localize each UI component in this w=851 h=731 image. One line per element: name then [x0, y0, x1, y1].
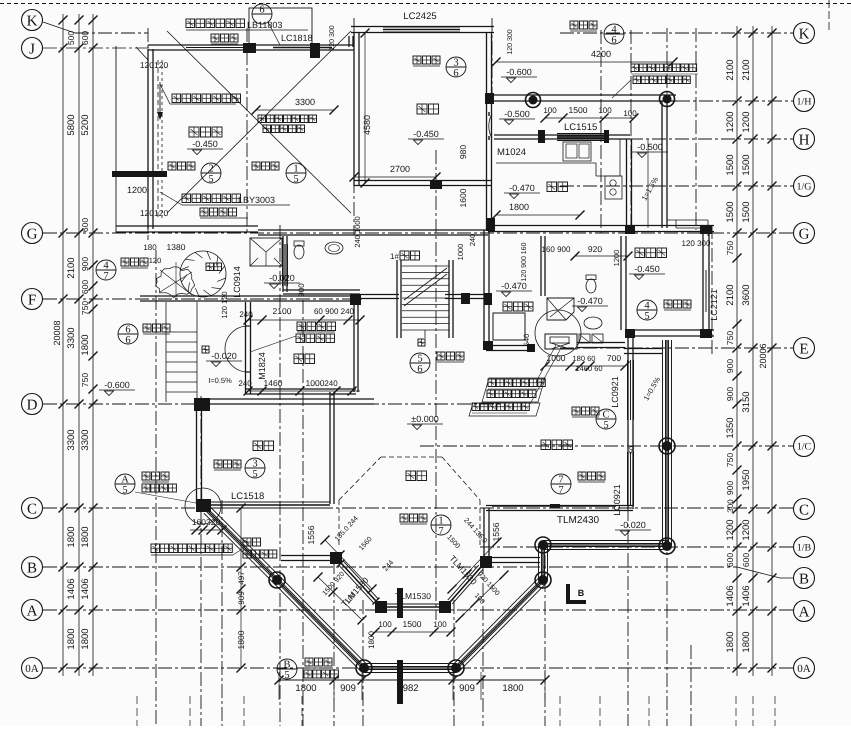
wall guest north: [199, 403, 374, 405]
axis bubble B right: [794, 568, 815, 589]
bay dim line outer right: [460, 575, 504, 618]
window LC0914 band: [287, 244, 289, 286]
axis line C: [43, 507, 793, 509]
svg-text:-0.470: -0.470: [509, 183, 535, 193]
svg-text:3: 3: [453, 58, 458, 69]
side yard east line: [647, 139, 649, 228]
round column bay 7: [659, 438, 675, 454]
svg-text:900: 900: [725, 359, 735, 373]
svg-text:900: 900: [725, 387, 735, 401]
wall dining east: [486, 33, 488, 230]
wc basin: [325, 242, 343, 254]
wall stair landing south: [360, 298, 399, 300]
room label 厨房: [547, 182, 568, 192]
round column bay 3: [448, 660, 464, 676]
svg-text:5: 5: [417, 354, 422, 365]
window LC2425: [383, 26, 460, 28]
wall guest west: [196, 404, 198, 504]
svg-text:LBY3003: LBY3003: [238, 195, 275, 205]
column worker ne: [700, 225, 712, 234]
svg-text:900: 900: [725, 481, 735, 495]
detail circle B/5: [277, 659, 297, 681]
svg-text:1000: 1000: [456, 244, 465, 261]
axis bubble 0A left: [22, 658, 43, 679]
wall laundry divider: [540, 236, 542, 296]
svg-text:1800: 1800: [80, 526, 91, 547]
svg-text:1406: 1406: [80, 578, 91, 599]
ann 详建施 3/6: [413, 56, 440, 64]
dim line bay bottom: [375, 631, 451, 633]
svg-text:3300: 3300: [80, 429, 91, 450]
corner circle big: [185, 488, 221, 524]
svg-text:1460 60: 1460 60: [575, 364, 602, 373]
bay pier tick cluster right: [447, 599, 454, 606]
svg-text:K: K: [27, 13, 38, 29]
axis line 1/H: [492, 100, 793, 102]
wall garage south: [116, 231, 258, 233]
svg-text:5: 5: [293, 174, 298, 185]
stair break line: [404, 268, 447, 300]
garage door arrow: [159, 82, 161, 118]
wall dining north: [351, 32, 494, 34]
wall deck north: [494, 100, 676, 102]
svg-text:1200: 1200: [612, 250, 621, 267]
svg-text:3150: 3150: [741, 391, 752, 412]
svg-text:920: 920: [588, 244, 602, 254]
axis bubble C right: [794, 499, 815, 520]
svg-text:1800: 1800: [502, 683, 523, 694]
section bar B bottom: [397, 588, 403, 618]
svg-text:4: 4: [103, 261, 109, 272]
svg-text:600: 600: [80, 280, 90, 294]
svg-text:1556: 1556: [306, 525, 316, 544]
detail circle A/5: [115, 474, 135, 496]
bay dim line inner right: [452, 542, 497, 589]
wall worker east: [702, 232, 704, 336]
svg-text:600: 600: [80, 218, 90, 232]
round column bay 2: [356, 660, 372, 676]
svg-text:3300: 3300: [66, 429, 77, 450]
axis line E: [560, 347, 793, 349]
column hall north right: [527, 344, 535, 352]
svg-text:LB11803: LB11803: [247, 20, 282, 30]
svg-text:0A: 0A: [25, 663, 39, 675]
svg-text:1#: 1#: [390, 252, 399, 261]
axis bubble 1/H right: [794, 91, 815, 112]
column stairs east: [461, 293, 470, 304]
bay dim line outer left: [318, 577, 362, 620]
axis bubble K left: [22, 10, 43, 31]
axis line J: [43, 47, 150, 49]
wc toilet: [294, 245, 304, 259]
wall x486 vertical: [483, 230, 485, 348]
ann wall hole line1: [631, 64, 697, 72]
bay wall top-left: [281, 560, 331, 562]
svg-text:1800: 1800: [725, 631, 736, 652]
shower stall: [547, 298, 574, 320]
svg-text:-0.600: -0.600: [506, 67, 532, 77]
axis line G: [43, 232, 793, 234]
grid line centre x436: [435, 150, 437, 620]
svg-text:2100: 2100: [66, 257, 77, 278]
svg-text:3: 3: [252, 459, 257, 470]
axis bubble G right: [794, 223, 815, 244]
fireplace note line3: [472, 403, 529, 411]
sheet border top (dotted): [0, 3, 851, 5]
label ann LB11803: [186, 19, 245, 28]
svg-text:6: 6: [453, 68, 458, 79]
window LC2121: [708, 270, 710, 312]
fireplace note line1: [488, 379, 545, 387]
axis bubble K stub: [43, 22, 75, 33]
fireplace leaders: [536, 345, 556, 382]
window LC1518: [211, 501, 330, 503]
svg-text:-0.450: -0.450: [634, 264, 660, 274]
svg-text:120120: 120120: [140, 208, 169, 218]
svg-text:1800: 1800: [80, 628, 91, 649]
wall kitchen east: [626, 139, 628, 232]
grid line x696: [695, 28, 697, 230]
round column bay 5: [535, 537, 551, 553]
column garage north mid: [243, 43, 256, 53]
ticks 160320: [190, 529, 222, 531]
round column bay 4: [535, 572, 551, 588]
axis line B: [43, 566, 737, 568]
ann UPVC: [151, 544, 232, 553]
svg-text:-0.470: -0.470: [577, 296, 603, 306]
detail circle 7/7: [551, 474, 571, 496]
svg-text:7: 7: [558, 475, 563, 486]
svg-text:50: 50: [629, 446, 636, 454]
svg-text:I=0.5%: I=0.5%: [208, 376, 232, 385]
svg-text:A: A: [27, 603, 38, 619]
wall family north east piece: [624, 353, 662, 355]
svg-text:1800: 1800: [741, 631, 752, 652]
svg-text:1200: 1200: [741, 111, 752, 132]
svg-text:600: 600: [725, 553, 735, 567]
axis line 1/G: [560, 185, 793, 187]
svg-text:1500: 1500: [741, 154, 752, 175]
svg-text:C: C: [27, 501, 37, 517]
svg-text:1380: 1380: [167, 242, 186, 252]
svg-text:540: 540: [522, 334, 531, 347]
svg-text:909: 909: [237, 591, 246, 605]
ann (余同) B/5: [304, 670, 338, 678]
svg-text:C: C: [799, 502, 809, 518]
ann 详建施 4/7: [121, 258, 148, 266]
svg-text:750: 750: [725, 453, 735, 467]
wall entry south: [245, 393, 356, 395]
svg-text:6: 6: [611, 35, 616, 46]
axis bubble E right: [794, 338, 815, 359]
ann 详建施 4/6: [570, 21, 597, 29]
axis line 1/C: [420, 445, 793, 447]
fireplace note box12: [482, 378, 545, 402]
ann (余同) A/5: [142, 484, 176, 492]
svg-text:900: 900: [297, 283, 306, 297]
column garage north east: [310, 43, 320, 58]
axis bubble 1/G right: [794, 176, 815, 197]
svg-text:1500: 1500: [725, 154, 736, 175]
grid line x483: [482, 560, 484, 726]
bay dashed ceiling: [339, 457, 381, 500]
column x485: [484, 293, 492, 305]
bay window TLM1530 left: [343, 561, 378, 599]
bottom extension verticals: [136, 696, 138, 726]
grid line x280: [279, 225, 281, 726]
room label 起居室: [541, 440, 573, 450]
terrace band left low: [280, 577, 367, 665]
canopy rect above: [249, 8, 312, 45]
svg-text:120 300: 120 300: [507, 29, 514, 54]
svg-text:2100: 2100: [725, 284, 736, 305]
svg-text:2100: 2100: [741, 59, 752, 80]
wall stairhall north G: [360, 234, 488, 236]
svg-text:100: 100: [543, 106, 557, 115]
kitchen counter edge: [496, 162, 596, 164]
grid line x628: [627, 392, 629, 726]
svg-text:120120: 120120: [140, 60, 169, 70]
right dim chain lines: [736, 26, 738, 676]
cross brace X garage bay: [167, 31, 351, 213]
svg-text:100: 100: [433, 620, 447, 629]
wall worker south: [628, 335, 714, 337]
door M1024 arc: [489, 114, 492, 138]
svg-text:1200: 1200: [127, 185, 147, 195]
wall deck east: [661, 101, 663, 228]
svg-text:3300: 3300: [295, 97, 315, 107]
svg-text:300: 300: [726, 499, 735, 513]
fireplace detail circle: [535, 310, 581, 356]
svg-text:LC2121: LC2121: [709, 289, 719, 321]
svg-text:1800: 1800: [509, 202, 529, 212]
svg-text:100: 100: [598, 106, 612, 115]
corner column C: [196, 499, 211, 512]
mezzanine note line2: [263, 125, 305, 133]
svg-text:7: 7: [558, 485, 563, 496]
svg-text:6: 6: [125, 325, 130, 336]
bay dim inner left ticks: [321, 536, 330, 545]
axis line F: [43, 298, 365, 300]
axis bubble F left: [22, 289, 43, 310]
wall bath south: [577, 347, 625, 349]
svg-text:909: 909: [459, 683, 475, 694]
svg-text:1/B: 1/B: [797, 543, 812, 554]
tree circle: [180, 251, 226, 297]
svg-text:-0.020: -0.020: [269, 273, 295, 283]
svg-text:4200: 4200: [591, 49, 611, 59]
svg-text:180 60: 180 60: [573, 354, 596, 363]
svg-text:20008: 20008: [52, 320, 62, 345]
svg-text:1500: 1500: [403, 619, 422, 629]
svg-text:1200: 1200: [725, 111, 736, 132]
svg-text:F: F: [28, 292, 36, 308]
stair down label: [202, 346, 209, 353]
svg-text:5: 5: [122, 485, 127, 496]
svg-text:240: 240: [468, 234, 477, 247]
grid line x454: [453, 600, 455, 726]
garage corner break tick: [136, 47, 148, 60]
door M1824 arc: [225, 326, 248, 372]
ann 详建施 A/5: [142, 472, 169, 480]
wall family east: [627, 336, 629, 509]
window LC1515: [557, 133, 606, 135]
bay pier se: [439, 601, 451, 613]
stair walls: [396, 260, 398, 338]
detail circle 4/7: [96, 260, 116, 282]
bay dim line inner left: [325, 540, 372, 589]
svg-text:900: 900: [80, 257, 90, 271]
wall worker north: [632, 231, 714, 233]
bottom dim ext lines: [278, 672, 280, 700]
svg-text:909: 909: [340, 683, 356, 694]
ann 详建施1处: [200, 208, 237, 216]
column worker nw: [625, 225, 635, 234]
axis line H: [560, 138, 793, 140]
washer boxes: [579, 334, 590, 343]
svg-text:100: 100: [378, 620, 392, 629]
svg-text:-0.020: -0.020: [211, 351, 237, 361]
wall step dining-garage: [348, 36, 350, 47]
bay pier sw: [375, 601, 387, 613]
svg-text:2100: 2100: [273, 306, 292, 316]
stair up arrow: [424, 330, 426, 338]
terrace band bottom: [364, 663, 456, 665]
svg-text:240: 240: [238, 379, 252, 388]
axis line A: [43, 609, 793, 611]
svg-text:LC0921: LC0921: [610, 376, 620, 408]
svg-text:4: 4: [611, 25, 617, 36]
svg-text:1: 1: [438, 516, 443, 527]
svg-text:2700: 2700: [390, 164, 410, 174]
svg-text:6: 6: [259, 5, 264, 16]
column guest nw: [194, 398, 210, 411]
wall mid horizontal G: [258, 234, 360, 236]
grid line x691: [690, 645, 692, 726]
ann 详建施 6/6: [143, 324, 170, 332]
ann 详建施 4/5: [664, 300, 691, 308]
svg-text:3600: 3600: [741, 284, 752, 305]
svg-text:-0.020: -0.020: [620, 520, 646, 530]
grid line x667 upper: [666, 28, 668, 95]
room label 客厅: [406, 471, 427, 481]
kitchen sink: [563, 142, 591, 161]
svg-text:1500: 1500: [569, 105, 588, 115]
room label 工人房: [635, 248, 667, 258]
svg-text:H: H: [799, 132, 810, 148]
svg-text:5: 5: [603, 420, 608, 431]
axis bubble 1/C right: [794, 436, 815, 457]
svg-text:120 900 160: 120 900 160: [521, 242, 528, 281]
grid line x363: [362, 600, 364, 726]
room label 餐厅: [417, 104, 439, 114]
fireplace note box3: [469, 403, 540, 416]
svg-text:1406: 1406: [66, 578, 77, 599]
left dim chain lines: [62, 14, 64, 676]
detail circle 3/6: [446, 57, 466, 79]
wall family south TLM2430: [486, 510, 633, 512]
grid line x667 lower: [666, 420, 668, 726]
wall kitchen north LC1515: [494, 138, 630, 140]
svg-text:±0.000: ±0.000: [411, 414, 438, 424]
wall dining south: [354, 185, 492, 187]
detail circle 2/5: [201, 163, 221, 185]
svg-text:1000: 1000: [306, 378, 325, 388]
svg-text:6: 6: [417, 364, 422, 375]
wall hall north left: [486, 350, 532, 352]
window TLM2430 marks: [492, 505, 616, 507]
column worker sw: [625, 329, 635, 338]
grid line x601: [600, 30, 602, 233]
ann rain line1: [243, 538, 261, 546]
round column deck west: [526, 93, 541, 108]
detail circle 1/7: [431, 515, 451, 537]
svg-text:7: 7: [438, 526, 443, 537]
svg-text:K: K: [799, 26, 810, 42]
bay pier tick cluster left: [338, 560, 345, 567]
window LB11803 louver: [186, 44, 243, 46]
svg-text:1500: 1500: [725, 201, 736, 222]
svg-text:-0.500: -0.500: [637, 142, 663, 152]
wall wc west: [282, 236, 284, 292]
bay pier nw: [330, 552, 342, 564]
ann 详建施 1/7: [400, 514, 427, 522]
svg-text:D: D: [27, 397, 38, 413]
svg-text:5: 5: [284, 670, 289, 681]
svg-text:B: B: [578, 588, 585, 598]
svg-text:5800: 5800: [66, 114, 77, 135]
ann gate line2: [296, 334, 335, 343]
svg-text:B: B: [283, 660, 290, 671]
detail circle 4/6: [604, 24, 624, 46]
svg-text:750: 750: [725, 331, 735, 345]
wall guest east: [329, 392, 331, 504]
bottom dim line: [279, 679, 545, 681]
grid line garage east: [246, 28, 248, 233]
wall family west lower: [483, 508, 485, 558]
column dining south mid: [430, 180, 442, 189]
svg-text:1350: 1350: [725, 417, 736, 438]
round column bay 1: [269, 572, 285, 588]
svg-text:700: 700: [607, 353, 621, 363]
terrace band left diag: [210, 507, 280, 577]
svg-text:1800: 1800: [66, 628, 77, 649]
svg-text:G: G: [27, 226, 38, 242]
wall entry north F: [140, 300, 360, 302]
axis bubble 1/B right: [794, 537, 815, 558]
svg-text:750: 750: [80, 373, 90, 387]
svg-text:1/C: 1/C: [797, 442, 812, 453]
svg-text:750: 750: [80, 301, 90, 315]
fireplace: [545, 334, 577, 349]
wall entry west: [245, 302, 247, 394]
axis line 0A: [43, 667, 793, 669]
svg-text:A: A: [121, 475, 129, 486]
svg-text:1800: 1800: [295, 683, 316, 694]
svg-text:LC1515: LC1515: [564, 122, 597, 133]
ann wall hole line2: [633, 76, 690, 84]
window LC1818 band: [273, 44, 332, 46]
svg-text:160 900: 160 900: [542, 245, 571, 254]
laundry room label: [503, 302, 533, 311]
svg-text:980: 980: [458, 145, 468, 159]
detail circle 3/5: [245, 458, 265, 480]
grid line dining east: [491, 18, 493, 101]
svg-text:600: 600: [741, 553, 751, 567]
entry canopy hip: [250, 238, 282, 266]
label ann top detail: [211, 34, 238, 42]
svg-text:LC0914: LC0914: [232, 266, 242, 298]
